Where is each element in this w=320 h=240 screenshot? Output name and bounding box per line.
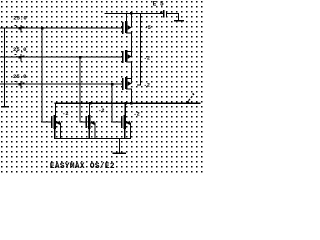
node junction VDD at PMOS bulk column [130,12,133,15]
pulse source B2 (button on input B) [14,54,24,62]
svg-text:EASYMAX OS/E2: EASYMAX OS/E2 [50,162,115,171]
ground terminal left [1,106,9,108]
pulse source B1 (button on input A) [14,25,24,33]
wire ground stem bottom [119,138,120,153]
wire gate feed B down to N2 [80,57,81,123]
wire input rail C [0,84,123,85]
output pin Y arrow [186,93,194,104]
node junction rail B to gate feed [79,56,82,59]
battery E1 plates [160,10,167,17]
transistor P2 (PMOS, gate = input B) [122,50,132,63]
wire output rail [55,103,201,104]
wire gate feed C down to N3 [112,84,113,123]
wire right auxiliary net from VDD [140,13,141,86]
node junction output at N2 drain [89,102,92,105]
svg-text:E 5: E 5 [153,1,164,8]
transistor P3 (PMOS, gate = input C) [122,77,132,90]
node junction output at N3 drain [124,102,127,105]
wire NMOS source rail [54,138,131,139]
transistor P1 (PMOS, gate = input A) [122,13,132,34]
transistor N3 (NMOS, gate = input C) [112,103,131,139]
pulse source B3 (button on input C) [14,81,24,89]
ground terminal bottom [112,153,126,155]
transistor N2 (NMOS, gate = input B) [80,103,96,139]
svg-text:-2: -2 [62,111,68,117]
svg-text:-2: -2 [144,82,150,88]
wire VDD rail [105,13,164,14]
wire battery negative drop [178,13,179,21]
svg-text:-2: -2 [144,56,150,62]
ground terminal battery [174,20,184,22]
wire left common down lead [4,28,5,107]
wire P2 drain link down to P3 [126,62,132,80]
wire input rail B [0,57,123,58]
wire gate feed A down to N1 [42,28,43,123]
transistor N1 (NMOS, gate = input A) [42,103,61,139]
node junction rail A to gate feed [41,27,44,30]
svg-text:25.0: 25.0 [13,15,27,22]
wire right auxiliary net bottom tick [137,85,141,86]
wire VDD rail right of battery [167,13,179,14]
wire P3 drain down to output node [126,89,132,104]
svg-text:25.0: 25.0 [13,46,27,53]
svg-text:-2: -2 [98,108,104,114]
wire P1 drain link down to P2 [126,33,132,53]
node junction output at PMOS chain [130,102,133,105]
svg-text:-2: -2 [134,112,140,118]
wire input rail A [0,28,123,29]
svg-text:25.0: 25.0 [13,73,27,80]
svg-text:-5: -5 [145,25,151,31]
node junction rail C to gate feed [111,83,114,86]
